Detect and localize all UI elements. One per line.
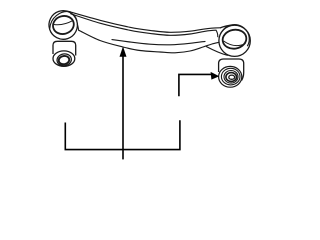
left bushing body outline [53, 41, 76, 55]
center callout arrow pointing up at arm [120, 46, 127, 159]
right bushing face ring 2 [221, 68, 240, 85]
arrow head [120, 46, 127, 56]
bracket left vertical [65, 120, 180, 149]
right bushing face outer ellipse [219, 66, 242, 87]
right eye outer rim [219, 25, 250, 56]
arrow shaft [122, 56, 124, 159]
arm bottom edge [79, 30, 219, 53]
left eye outer rim [45, 7, 81, 43]
right eye opening [221, 28, 248, 51]
left eye to arm junction notch [73, 14, 77, 21]
right bushing body outline [219, 59, 244, 81]
right eye lip arc [222, 25, 249, 47]
right bushing bore ring [226, 73, 237, 82]
left eye ring of arm [45, 7, 81, 43]
right eye ring of arm [216, 25, 251, 57]
right bushing face ring 3 [224, 71, 238, 84]
bottom bracket callout [65, 120, 180, 149]
leader vertical segment [179, 74, 211, 96]
arm mid crease line [112, 40, 205, 45]
left bushing face outer ellipse [53, 51, 75, 66]
right bushing (lower right) [219, 59, 244, 87]
left bushing face ring [56, 53, 72, 67]
right bushing center hole [229, 75, 235, 79]
right eye upper-left shoulder contour [220, 25, 233, 28]
left eye lip arc [50, 11, 71, 28]
control arm body (curved strap) [68, 11, 228, 55]
left eye junction lower notch [77, 24, 78, 30]
left eye opening [51, 14, 76, 37]
crease below right eye [207, 47, 228, 56]
left eye bore chord arc [54, 21, 73, 25]
left bushing (below left eye) [53, 41, 76, 67]
right eye to arm junction notch [216, 30, 218, 37]
right callout leader with arrow to right bushing [179, 72, 219, 96]
left bushing bore ring [58, 55, 70, 65]
arm top inner edge [71, 14, 216, 36]
right eye bore chord arc [224, 41, 246, 46]
arm top outer edge [68, 11, 220, 32]
leader arrow head [211, 72, 220, 80]
